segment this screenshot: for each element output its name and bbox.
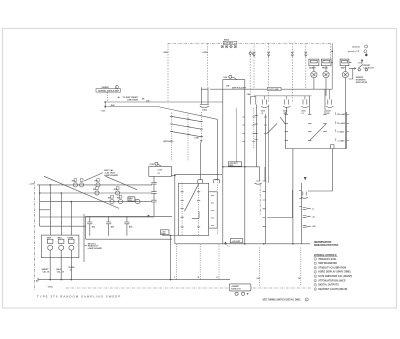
board bracket (84, 214, 87, 262)
label bracket stubs (336, 112, 349, 141)
svg-text:SWP: SWP (341, 67, 346, 69)
svg-text:+150: +150 (312, 226, 316, 228)
wire heater drop pin5 (291, 43, 293, 101)
svg-text:.005: .005 (326, 113, 330, 115)
switch gang diagonal D1 (44, 176, 119, 208)
tube V45 envelope box (223, 80, 245, 244)
wire row r5 (40, 216, 154, 218)
svg-text:R23: R23 (95, 181, 98, 183)
note item 2 (314, 262, 317, 265)
svg-text:TRIG'D: TRIG'D (322, 67, 329, 69)
svg-text:GATE AMPLIFIER CAL (MAINT): GATE AMPLIFIER CAL (MAINT) (318, 275, 352, 278)
svg-text:NORMAL SINGLE SWP: NORMAL SINGLE SWP (98, 90, 119, 93)
capacitor row +5 (303, 208, 311, 210)
svg-text:DLY'D SWP: DLY'D SWP (269, 89, 280, 91)
wire plate link (268, 190, 293, 218)
tube V152 ticks (211, 196, 214, 226)
wire heater drop pin4 (268, 43, 270, 101)
wire plate feed arrow (304, 149, 307, 181)
lamp holder squares (47, 239, 53, 243)
svg-text:TRIGGER LEVEL: TRIGGER LEVEL (318, 259, 337, 261)
dashed drop d2 (199, 244, 201, 280)
svg-text:READOUT LIGHTS (REAR): READOUT LIGHTS (REAR) (318, 288, 347, 291)
wire left riser (39, 185, 41, 226)
dashed drop d4 (259, 248, 261, 287)
wire pickoff out (308, 149, 333, 192)
capacitor C131 (151, 176, 156, 191)
svg-text:R25: R25 (114, 189, 117, 191)
wiper tap (192, 211, 199, 218)
transformer T601 terminals (221, 45, 237, 48)
svg-text:4: 4 (315, 272, 316, 274)
svg-text:7: 7 (315, 285, 316, 287)
svg-text:C135: C135 (158, 170, 163, 172)
capacitor C601 bypass (261, 100, 268, 108)
wire switch to lamp column (349, 68, 353, 79)
svg-text:+12: +12 (312, 216, 315, 218)
svg-text:INDICATOR: INDICATOR (356, 81, 368, 84)
dash run V161 (259, 184, 261, 215)
potentiometer R27 (118, 200, 122, 204)
svg-text:(reset) +7.5: (reset) +7.5 (348, 50, 360, 53)
svg-text:B94: B94 (129, 225, 132, 228)
contact column a (285, 114, 288, 140)
wire bottom bus A (38, 279, 230, 281)
capacitor C81 (87, 216, 92, 235)
note item 6 (314, 279, 317, 282)
section dash line (66, 287, 312, 289)
svg-text:C140: C140 (194, 137, 199, 140)
wire +225V dashed drop (207, 43, 209, 87)
svg-text:MAG: MAG (58, 237, 63, 240)
capacitor C602 bypass (283, 100, 290, 108)
wire sweep bus y89 (210, 88, 332, 90)
svg-text:C40A: C40A (202, 109, 207, 112)
capacitor C604 bypass (326, 100, 333, 108)
svg-text:CAL 1X: CAL 1X (43, 271, 50, 274)
neon lamp B603 (342, 72, 348, 78)
resistor R45 column (216, 119, 218, 179)
svg-text:SWP HOLDOFF: SWP HOLDOFF (232, 88, 247, 90)
note item 7 (314, 284, 317, 287)
svg-text:SEE TIMING SWITCH DETAIL DWG: SEE TIMING SWITCH DETAIL DWG (263, 298, 301, 301)
svg-text:6.3V WDG: 6.3V WDG (224, 43, 234, 45)
svg-text:100 mSEC: 100 mSEC (337, 114, 347, 116)
wire drop to C141 (259, 167, 261, 181)
switch contacts ticks (170, 116, 203, 136)
svg-text:8: 8 (315, 289, 316, 291)
wire decade column to wafer (199, 143, 201, 180)
switch SW40 normal-single sweep label box (96, 89, 121, 92)
wire +225 link inside V45 (223, 166, 260, 168)
dashed drop d1 (175, 244, 177, 280)
tube V183 grid (300, 183, 302, 244)
wire 600V heater dash-dot bus (168, 42, 331, 44)
wire lower bus y106.6 with bend (105, 107, 217, 120)
svg-text:ATTENUATOR BALANCE: ATTENUATOR BALANCE (318, 279, 346, 282)
svg-text:R24: R24 (93, 188, 96, 191)
wafer contact column 2 (198, 183, 200, 235)
wire row r6 (40, 225, 86, 227)
potentiometer R25 (116, 191, 120, 195)
wire lamps common to reset switch (331, 61, 351, 63)
svg-text:R27: R27 (117, 198, 120, 200)
bracket contact (331, 145, 335, 149)
wire lamp riser 3 (70, 202, 72, 236)
wire dashed link from SW40 (106, 92, 108, 102)
capacitor C132 (151, 192, 156, 201)
svg-text:5: 5 (306, 299, 307, 301)
svg-text:R21: R21 (72, 181, 75, 183)
svg-text:LAMP BOARD: LAMP BOARD (88, 247, 103, 250)
fuse box F603 SWP (340, 59, 349, 66)
wire heater drop pin6 (305, 43, 307, 88)
boxed label +225 swp (228, 162, 241, 166)
capacitor C83 (124, 216, 129, 235)
svg-text:C40: C40 (257, 277, 260, 280)
wire lamp B602 lead (325, 66, 327, 96)
wire lamp riser 1 (49, 185, 51, 235)
tube V45 grid ticks (242, 117, 245, 142)
wire lamp leads to bus (50, 250, 71, 279)
svg-text:.01: .01 (301, 113, 304, 115)
connector P601 (249, 51, 251, 56)
svg-text:LAMP BOARD: LAMP BOARD (104, 174, 119, 177)
timing switch SW135 decade columns (171, 113, 173, 162)
capacitor C82 (106, 216, 111, 235)
junction dot (331, 51, 333, 53)
potentiometer R22 (80, 183, 84, 187)
capacitor C183 (301, 192, 308, 199)
capacitor C141 (255, 167, 267, 184)
wire C135 to timing box (171, 174, 174, 176)
contact risers (286, 89, 325, 114)
svg-text:.1 mSEC: .1 mSEC (337, 140, 345, 142)
wafer wiper diagonal (185, 183, 200, 211)
svg-text:B93: B93 (111, 226, 114, 228)
wire row5 to caps column (125, 215, 150, 218)
contact column c (323, 114, 326, 131)
switch gang diagonal c (172, 132, 202, 137)
wafer SW135A box (179, 183, 209, 235)
arrow decade wiper (195, 140, 203, 142)
note item 4 (314, 271, 317, 274)
svg-text:1: 1 (315, 259, 316, 261)
timing switch outer box (175, 174, 222, 243)
wire main bus y102 (105, 101, 223, 103)
neon lamp B602 (323, 72, 329, 78)
resistor box C135 (149, 166, 172, 176)
lamp DS2 (59, 245, 64, 250)
wiper diagonal SW180 (310, 124, 326, 140)
grid plate rect V152 (209, 192, 218, 228)
fuse box F602 TRIG'D (321, 59, 331, 66)
capacitor C40A leads (202, 89, 209, 104)
pointer swp cal lamp note (84, 173, 103, 181)
svg-text:STABILITY CALIBRATION: STABILITY CALIBRATION (318, 266, 346, 269)
svg-text:SEMICONDUCTOR TYPES: SEMICONDUCTOR TYPES (314, 244, 339, 247)
delay switch SW180 box bottom (285, 112, 346, 149)
svg-text:LOCKOUT: LOCKOUT (364, 68, 375, 70)
svg-text:+225 SWP: +225 SWP (232, 241, 241, 243)
wire drop to bottom bus (170, 236, 172, 280)
connector chevrons on heater drops (253, 52, 308, 57)
fuse box F601 READY (309, 59, 319, 66)
wire +325V dashed drop (167, 43, 169, 102)
svg-text:6: 6 (315, 280, 316, 282)
note item 5 (314, 275, 317, 278)
wire P601 drop to C44 (249, 56, 251, 97)
wire +300 swp feed (162, 235, 179, 237)
wiper diagonal small (280, 117, 285, 124)
svg-text:+12V: +12V (29, 183, 35, 185)
tube V45 plate curve (232, 77, 237, 79)
svg-text:NORM: NORM (68, 238, 74, 240)
svg-text:C41: C41 (298, 277, 301, 280)
svg-text:.01: .01 (261, 113, 264, 115)
readout lamp board box (41, 235, 79, 258)
boxed label +300V swp (161, 230, 170, 235)
arrow to sweep reset line (117, 97, 121, 99)
svg-text:SWP MAGNIFIER: SWP MAGNIFIER (318, 262, 337, 265)
connector entry J2 (214, 180, 220, 184)
svg-text:.01: .01 (283, 113, 286, 115)
wire V161 heater column (268, 105, 270, 184)
tube V173 cathode (265, 114, 267, 244)
wiper diagonal V162 (267, 124, 277, 134)
switch gang diagonal b (172, 124, 202, 129)
switch gang diagonal a (172, 116, 202, 121)
wire row3 (40, 201, 152, 203)
wafer contact column 1 (181, 183, 183, 235)
wire B45 lamp feed vertical (331, 43, 333, 89)
svg-text:V135: V135 (149, 164, 155, 166)
svg-text:(DECADE): (DECADE) (163, 140, 173, 143)
svg-text:B92: B92 (92, 226, 95, 228)
wafer contact ticks (181, 192, 201, 227)
svg-text:HORIZ DISPLAY SWPS (TIME): HORIZ DISPLAY SWPS (TIME) (318, 271, 351, 274)
wire heater drop to lamps (330, 43, 332, 58)
svg-text:1 mSEC: 1 mSEC (337, 131, 345, 133)
svg-text:−12V: −12V (100, 110, 106, 112)
svg-text:TYPE 3T6 RANDOM SAMPLING SWEEP: TYPE 3T6 RANDOM SAMPLING SWEEP (37, 294, 121, 298)
wire divider drop b (236, 108, 238, 167)
capacitor C603 bypass (301, 100, 308, 108)
wire heater drop pin3 (253, 43, 255, 89)
svg-text:53: 53 (252, 54, 254, 56)
boxed label +225 bus (230, 239, 243, 243)
wire lamp B601 lead (313, 66, 315, 90)
svg-text:DIGITAL OUTPUTS: DIGITAL OUTPUTS (318, 284, 339, 287)
wire lamp B603 lead (344, 66, 346, 149)
knob boxes above pots (74, 179, 122, 198)
svg-text:10 mSEC: 10 mSEC (337, 123, 346, 125)
contact column b (308, 114, 311, 140)
dashed drop d5 (300, 248, 302, 287)
capacitor C133 (151, 200, 156, 216)
switch gang diagonal D2 (106, 176, 137, 189)
capacitor row +12 (303, 216, 311, 218)
svg-text:+325V: +325V (163, 52, 170, 54)
capacitor C44 (251, 97, 256, 105)
potentiometer R140 (136, 199, 140, 203)
svg-text:R26: R26 (108, 198, 111, 200)
capacitor C40A plates (200, 105, 209, 108)
tube V135 cathode follower label circle (155, 162, 158, 165)
svg-text:CAL .1X: CAL .1X (57, 271, 65, 274)
neon readout board box (86, 216, 172, 239)
capacitor row +150 (303, 225, 311, 227)
wire row2 (40, 192, 152, 194)
neon lamp B601 (311, 72, 317, 78)
svg-text:SWEEP: SWEEP (102, 87, 110, 89)
tube V161 grid column (256, 105, 258, 167)
svg-text:LINE SW40: LINE SW40 (127, 98, 139, 101)
contact column V161 side (253, 108, 255, 149)
dashed drop d3 (218, 244, 220, 280)
boxed label sweep gate out (229, 284, 251, 291)
svg-text:REG: REG (129, 200, 133, 202)
connector sweep gate (235, 292, 238, 295)
svg-text:+225V: +225V (202, 52, 209, 54)
svg-text:+5: +5 (312, 208, 314, 210)
svg-text:C45: C45 (226, 84, 229, 87)
boxed label dlyd swp on bus (268, 87, 282, 90)
svg-text:Schmitt: Schmitt (352, 45, 360, 48)
svg-text:−150V: −150V (47, 287, 54, 289)
wire cathode drop (292, 149, 294, 244)
svg-text:15: 15 (158, 173, 160, 175)
cap connection stubs (265, 89, 330, 99)
wire mag register row1 (37, 184, 152, 186)
lamp DS1 (48, 245, 53, 250)
switch SW601 reset lockout (349, 54, 367, 71)
svg-text:C +: C + (227, 246, 230, 248)
note item 1 (314, 258, 317, 261)
wire lamp riser 2 (60, 193, 62, 235)
potentiometer R24 (95, 191, 99, 195)
svg-text:READY: READY (309, 66, 316, 69)
left dash-dot chassis line A (34, 181, 36, 291)
svg-text:3: 3 (315, 267, 316, 269)
svg-text:7: 7 (116, 87, 117, 89)
connector entry J1 (198, 180, 203, 184)
note item 3 (314, 266, 317, 269)
svg-text:2: 2 (315, 263, 316, 265)
note item 8 (314, 288, 317, 291)
potentiometer R21 (73, 183, 77, 187)
potentiometer R26 (110, 200, 114, 204)
lamp DS3 (69, 245, 74, 250)
svg-text:5: 5 (315, 276, 316, 278)
wire row stub r4 (39, 209, 50, 211)
potentiometer R23 (96, 183, 100, 187)
wire bus y96 (254, 95, 312, 97)
arrow bus exit (222, 241, 227, 244)
wire lower bus +225 (175, 243, 310, 245)
svg-text:GATE OUT: GATE OUT (231, 288, 241, 291)
wire -12V stub (104, 102, 106, 108)
